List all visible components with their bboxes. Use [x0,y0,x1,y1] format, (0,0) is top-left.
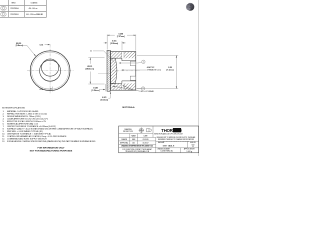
svg-text:C280TMD-A: C280TMD-A [160,150,173,153]
svg-text:COATING: COATING [31,1,39,4]
svg-text:NAME: NAME [131,135,135,138]
svg-text:[1.25mm]: [1.25mm] [92,90,100,92]
svg-text:WITHOUT PRIOR NOTICE TO ITS CU: WITHOUT PRIOR NOTICE TO ITS CUSTOMERS [163,140,190,142]
svg-text:MEB: MEB [132,139,135,141]
svg-text:ADAPTER: ADAPTER [147,66,155,69]
svg-text:[Ø8.0mm]: [Ø8.0mm] [86,68,95,70]
svg-text:APPROVAL: APPROVAL [120,141,128,144]
svg-text:600 - 1050 nm BBAR AR: 600 - 1050 nm BBAR AR [26,13,44,16]
svg-text:FOR INFORMATION ONLY: FOR INFORMATION ONLY [38,146,66,149]
svg-text:THOR: THOR [161,128,173,133]
svg-text:NOT FOR MANUFACTURING PURPOSES: NOT FOR MANUFACTURING PURPOSES [30,149,73,152]
svg-text:[7.1mm]: [7.1mm] [167,70,174,72]
svg-text:NOTES/SPECIFICATIONS:: NOTES/SPECIFICATIONS: [2,106,26,109]
svg-text:[9.8mm]: [9.8mm] [16,45,24,47]
svg-text:[0.53mm]: [0.53mm] [101,99,109,101]
svg-text:DRAWING INTERPRETATION PER ASM: DRAWING INTERPRETATION PER ASME Y14.5 [121,145,153,148]
svg-text:M9 x 0.5 THREAD: M9 x 0.5 THREAD [141,90,155,93]
svg-text:AG: AG [133,141,136,144]
svg-text:LABS: LABS [174,129,182,133]
svg-text:[2.95mm]: [2.95mm] [110,43,118,45]
svg-text:IN AN EFFORT TO IMPROVE OUR PR: IN AN EFFORT TO IMPROVE OUR PRODUCTS, TH… [157,136,196,139]
svg-text:DRAWN: DRAWN [121,138,127,141]
svg-text:13.: 13. [2,141,5,143]
svg-text:05/20/09: 05/20/09 [143,139,149,141]
svg-text:DATE: DATE [144,135,148,138]
svg-text:1.48 g: 1.48 g [186,151,193,153]
svg-text:01/26/17: 01/26/17 [143,142,149,144]
svg-text:FOR QUESTIONS CONTACT THORLABS: FOR QUESTIONS CONTACT THORLABS AT [123,148,152,151]
svg-text:SEE TABLE: SEE TABLE [163,145,175,148]
svg-text:ITEM #: ITEM # [11,3,16,5]
svg-text:0.15: 0.15 [40,44,44,46]
svg-text:C280TMD-B: C280TMD-B [10,14,18,16]
svg-text:SECTION A-A: SECTION A-A [122,106,135,109]
svg-text:A: A [90,50,92,53]
svg-text:PROJECTION: PROJECTION [123,131,133,133]
svg-text:FOR ADHESIVE COATING SPECIFICA: FOR ADHESIVE COATING SPECIFICATIONS (WAV… [7,140,96,143]
svg-text:[7.57mm]: [7.57mm] [117,36,125,38]
svg-text:0.15: 0.15 [40,89,44,91]
svg-text:400 - 600 nm: 400 - 600 nm [29,8,39,10]
svg-text:1: 1 [143,62,144,64]
svg-text:C280TMD-A: C280TMD-A [10,7,18,10]
svg-text:DRAWING: DRAWING [124,128,132,131]
